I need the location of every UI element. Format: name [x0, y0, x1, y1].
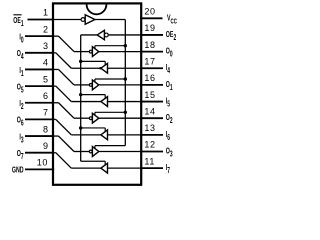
wire O2 inner output run [99, 117, 141, 119]
wire OE2 output to enable rail 2 [81, 34, 98, 36]
junction dot rail2 [79, 93, 82, 96]
svg-text:GND: GND [12, 167, 24, 175]
svg-text:9: 9 [43, 141, 48, 151]
svg-text:4: 4 [43, 58, 48, 68]
enable hook to buffer G7 [81, 127, 106, 129]
wire I7 inner input run [108, 167, 142, 169]
junction dot rail1 [124, 44, 127, 47]
wire pin17 I4 stub [140, 67, 163, 69]
wire O4 inner run [53, 52, 56, 54]
junction dot rail2 [79, 60, 82, 63]
wire I3 inner run [53, 135, 59, 137]
buffer G7: I6 to O6 [56, 119, 72, 134]
buffer G5: I4 to O4 [56, 53, 72, 68]
enable hook to buffer G1 [95, 45, 125, 47]
enable hook to buffer G4 [95, 145, 125, 147]
wire pin12 O3 stub [140, 151, 163, 153]
enable rail 2 (vertical, from OE2 inverter) [80, 35, 82, 161]
wire pin13 I6 stub [140, 134, 163, 136]
junction dot rail2 [79, 126, 82, 129]
enable hook to buffer G3 [95, 111, 125, 113]
svg-text:2: 2 [43, 24, 48, 34]
svg-text:19: 19 [144, 23, 155, 33]
enable hook to buffer G8 [81, 160, 106, 162]
svg-text:17: 17 [144, 56, 155, 66]
enable hook to buffer G6 [81, 94, 106, 96]
wire pin1 OE1 stub [28, 19, 55, 21]
output dot on G5 tip [99, 67, 101, 69]
wire O3 inner output run [99, 151, 141, 153]
pin-1 index notch (top-center semicircle) [87, 4, 107, 14]
wire pin10 GND stub [25, 168, 54, 170]
svg-text:14: 14 [144, 106, 155, 116]
wire pin20 VCC stub [140, 17, 163, 19]
wire I0 inner run [53, 35, 59, 37]
svg-text:11: 11 [144, 156, 155, 166]
buffer G6: I5 to O5 [56, 86, 72, 101]
wire pin9 O7 stub [25, 152, 54, 154]
svg-text:5: 5 [43, 74, 48, 84]
wire pin5 O5 stub [25, 85, 54, 87]
buffer G3: I2 to O2 [59, 103, 75, 118]
wire I6 inner input run [108, 134, 142, 136]
buffer G2: I1 to O1 [59, 69, 75, 84]
buffer G1: I0 to O0 [59, 36, 75, 51]
overline on OE1 [13, 14, 21, 16]
wire pin15 I5 stub [140, 101, 163, 103]
svg-text:16: 16 [144, 73, 155, 83]
wire pin4 I1 stub [25, 68, 54, 70]
wire O7 inner run [53, 152, 56, 154]
wire pin11 I7 stub [140, 167, 163, 169]
wire I4 inner input run [108, 67, 142, 69]
wire OE2 inner run to inverter [108, 34, 141, 36]
svg-text:12: 12 [144, 140, 155, 150]
wire pin16 O1 stub [140, 84, 163, 86]
svg-text:1: 1 [43, 8, 48, 18]
wire pin19 OE2 stub [140, 34, 163, 36]
svg-text:15: 15 [144, 90, 155, 100]
wire O5 inner run [53, 85, 56, 87]
enable rail 1 (vertical, from OE1 inverter) [124, 20, 126, 146]
wire pin18 O0 stub [140, 51, 163, 53]
enable hook to buffer G2 [95, 78, 125, 80]
svg-text:7: 7 [43, 108, 48, 118]
wire I1 inner run [53, 68, 59, 70]
svg-text:3: 3 [43, 41, 48, 51]
buffer G4: I3 to O3 [59, 136, 75, 151]
svg-text:20: 20 [144, 7, 155, 17]
svg-text:10: 10 [37, 158, 48, 168]
junction dot rail1 [124, 77, 127, 80]
buffer G8: I7 to O7 [56, 153, 72, 168]
svg-text:13: 13 [144, 123, 155, 133]
wire O1 inner output run [99, 84, 141, 86]
wire OE1 inner run to inverter [53, 19, 81, 21]
wire OE1 output to enable rail 1 [95, 19, 125, 21]
wire pin6 I2 stub [25, 102, 54, 104]
wire pin3 O4 stub [25, 52, 54, 54]
wire pin8 I3 stub [25, 135, 54, 137]
wire O6 inner run [53, 118, 56, 120]
svg-text:6: 6 [43, 91, 48, 101]
wire pin7 O6 stub [25, 118, 54, 120]
wire pin2 I0 stub [25, 35, 54, 37]
junction dot rail1 [124, 111, 127, 114]
svg-text:8: 8 [43, 124, 48, 134]
svg-text:18: 18 [144, 40, 155, 50]
wire I2 inner run [53, 102, 59, 104]
IC package body U1 (DIP20 outline) [53, 3, 141, 184]
enable hook to buffer G5 [81, 60, 106, 62]
inverter for OE1 (bubble + right-pointing triangle) [81, 18, 85, 22]
wire I5 inner input run [108, 101, 142, 103]
inverter for OE2 (bubble + left-pointing triangle) [104, 33, 108, 37]
wire pin14 O2 stub [140, 117, 163, 119]
wire O0 inner output run [99, 51, 141, 53]
